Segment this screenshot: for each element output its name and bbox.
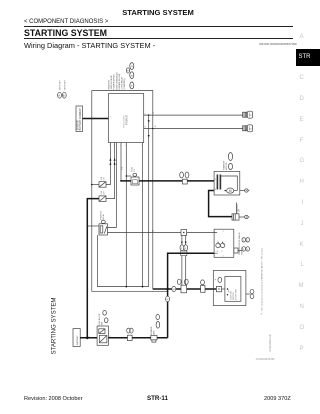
- svg-text:#49: #49: [103, 176, 105, 180]
- svg-text:MOTOR: MOTOR: [226, 162, 228, 170]
- svg-text:B: B: [153, 113, 155, 115]
- wire: thick riser from battery row: [167, 289, 169, 338]
- svg-text:H: H: [250, 128, 252, 131]
- starter motor box: [214, 172, 240, 196]
- svg-text:(STARTER): (STARTER): [123, 78, 126, 89]
- battery box bottom left: [73, 329, 80, 347]
- wire: thick battery row: [80, 337, 168, 339]
- wire: starter ground: [240, 190, 245, 192]
- svg-text:F3: F3: [134, 168, 136, 171]
- wire: top feed across IPDM: [92, 91, 153, 129]
- svg-text:: WITH A/T: : WITH A/T: [59, 80, 62, 91]
- svg-text:RELAY: RELAY: [102, 213, 105, 220]
- svg-text:B/R: B/R: [121, 166, 123, 170]
- wire: battery ground: [239, 216, 245, 218]
- wire: thick signal row: [153, 288, 217, 290]
- PNP switch box: [214, 229, 234, 257]
- rule under breadcrumb: [24, 26, 293, 27]
- wire: thin left bus: [92, 91, 168, 292]
- svg-text:A: A: [58, 94, 60, 98]
- wire: thick battery cable: [209, 191, 232, 217]
- motor M: [227, 188, 234, 193]
- fusible link 1: [243, 111, 253, 118]
- rule under heading: [24, 38, 293, 39]
- node: bus crossing: [91, 118, 93, 120]
- starter relay: [99, 224, 108, 235]
- ignition switch outer box: [213, 271, 246, 306]
- row connector 2: [201, 280, 205, 292]
- svg-text:1: 1: [110, 117, 112, 119]
- svg-text:M: M: [173, 289, 175, 291]
- footnote vertical: [261, 247, 264, 316]
- wire: battery lead up: [235, 203, 237, 214]
- svg-text:4: 4: [120, 145, 122, 147]
- svg-text:#48: #48: [103, 190, 105, 194]
- arrow down on drop: [148, 135, 150, 138]
- wire: thick battery bus left: [87, 199, 99, 338]
- wire: vertical drop right of IPDM: [148, 115, 150, 287]
- solenoid bars: [217, 175, 219, 190]
- svg-text:JCIWA0842GB: JCIWA0842GB: [268, 334, 272, 352]
- wire: thick starter feed row: [121, 180, 214, 182]
- arrow up fuse1 wire: [109, 158, 111, 161]
- ignition connector ref: [246, 289, 254, 298]
- svg-text:BATTERY: BATTERY: [76, 335, 79, 345]
- row terminal in ignition box: [216, 277, 221, 291]
- fuse F2: [99, 190, 106, 201]
- wire: IPDM drop to relay: [108, 143, 117, 228]
- svg-text:G: G: [250, 114, 252, 117]
- node: [152, 128, 154, 130]
- svg-text:* : This connector is not show: * : This connector is not shown in "HARN…: [261, 247, 264, 314]
- section heading: [24, 28, 107, 38]
- connector ref on riser: [166, 296, 170, 302]
- margin index letters: [300, 34, 304, 40]
- connector ref E7: [130, 82, 134, 89]
- battery current sensor label box: [76, 106, 83, 132]
- IPDM E/R box: [109, 94, 144, 143]
- svg-text:IPDM E/R: IPDM E/R: [127, 114, 129, 125]
- svg-text:P: P: [221, 251, 223, 253]
- running head title: [0, 8, 316, 17]
- starter relay label: [100, 210, 106, 223]
- svg-text:B: B: [63, 94, 65, 98]
- connector ref E9: [126, 68, 129, 73]
- STR tab: [296, 49, 320, 66]
- wire: thick PNP return: [168, 253, 215, 289]
- starter motor labels: [222, 153, 232, 171]
- svg-text:(CPU) RELAY: (CPU) RELAY: [121, 76, 124, 90]
- wire: battery sensor to IPDM (thick): [83, 118, 109, 120]
- PNP label: [238, 231, 243, 255]
- ground: starter: [245, 189, 250, 192]
- svg-text:STARTING SYSTEM: STARTING SYSTEM: [50, 298, 57, 355]
- inline connector at return crossing: [181, 251, 187, 256]
- wire: IPDM drops to signal row: [120, 143, 122, 181]
- node: relay branch: [86, 225, 88, 227]
- wire: bus to fuse1: [92, 184, 99, 186]
- svg-text:B: B: [155, 126, 157, 128]
- node: [125, 286, 127, 288]
- svg-text:*: *: [215, 279, 217, 283]
- row pass connector: [177, 279, 188, 293]
- wire: IPDM to fuse 1: [106, 143, 110, 185]
- svg-text:8: 8: [142, 145, 144, 147]
- ignition switch inner box: [225, 277, 241, 302]
- svg-text:LINK: LINK: [153, 330, 155, 335]
- node: row junction: [166, 288, 168, 290]
- svg-text:*: *: [261, 312, 262, 316]
- battery row connector: [151, 315, 160, 343]
- infoid: [259, 42, 297, 46]
- svg-text:B: B: [215, 189, 217, 191]
- wire: IPDM to fuse 2: [106, 143, 115, 199]
- arrow up fuse2 wire: [114, 158, 116, 161]
- sub heading: [24, 41, 155, 50]
- wire: elbow to fusible link 2: [144, 128, 243, 130]
- wire: IPDM to fusible link 1: [144, 114, 243, 116]
- connector ref ovals on drops: [180, 245, 184, 251]
- svg-text:S: S: [215, 179, 217, 181]
- pin labels: [89, 113, 225, 338]
- wire: relay loop row (thin): [97, 235, 148, 287]
- wire: drop from connector to row connector: [181, 235, 183, 285]
- arrows on drops: [181, 242, 183, 244]
- ground: battery: [245, 215, 250, 218]
- node: [142, 286, 144, 288]
- arrow down on drop: [148, 120, 150, 123]
- breadcrumb: [24, 19, 108, 25]
- legend: with A/T circle: [58, 80, 62, 98]
- IPDM E/R label text block: [109, 72, 127, 90]
- wire: branch into pass connector: [126, 175, 131, 177]
- node: starter feed tap: [120, 180, 122, 182]
- svg-text:(J/B): (J/B): [102, 321, 104, 326]
- inline connector on starter feed: [180, 172, 189, 184]
- connector ref E6: [130, 72, 134, 79]
- wire: vertical drop 2: [152, 129, 154, 290]
- fuse block box: [97, 310, 108, 345]
- fuse F1: [99, 176, 106, 187]
- connector ref on row: [172, 286, 176, 291]
- legend: with M/T circle: [62, 79, 66, 98]
- svg-text:(INTELLIGENT: (INTELLIGENT: [124, 114, 126, 128]
- fusible link 2: [243, 125, 253, 132]
- pass connector on starter feed: [121, 166, 139, 185]
- svg-text:3: 3: [114, 145, 116, 147]
- svg-text:JCIWA0842GB: JCIWA0842GB: [256, 357, 275, 361]
- connector ref E5: [130, 63, 134, 70]
- PNP right terminals: [234, 238, 250, 253]
- battery row pass connector: [127, 328, 133, 341]
- svg-text:M: M: [167, 299, 169, 301]
- battery (starter) box: [232, 203, 239, 220]
- svg-text:M: M: [229, 189, 232, 193]
- svg-text:7: 7: [125, 145, 127, 147]
- svg-text:(PUSH SW): (PUSH SW): [236, 289, 238, 300]
- inline connector on relay-PNP wire: [181, 230, 187, 236]
- node: [148, 114, 150, 116]
- wire: relay output to PNP switch: [108, 232, 215, 234]
- wire: bus to relay: [87, 225, 99, 227]
- svg-text:: WITH M/T: : WITH M/T: [64, 79, 66, 91]
- node: battery row: [86, 336, 89, 339]
- svg-text:N: N: [217, 251, 219, 253]
- svg-text:2: 2: [109, 145, 111, 147]
- solenoid internal loop: [221, 176, 237, 190]
- svg-text:1: 1: [223, 231, 225, 233]
- svg-text:SENSOR: SENSOR: [78, 120, 80, 130]
